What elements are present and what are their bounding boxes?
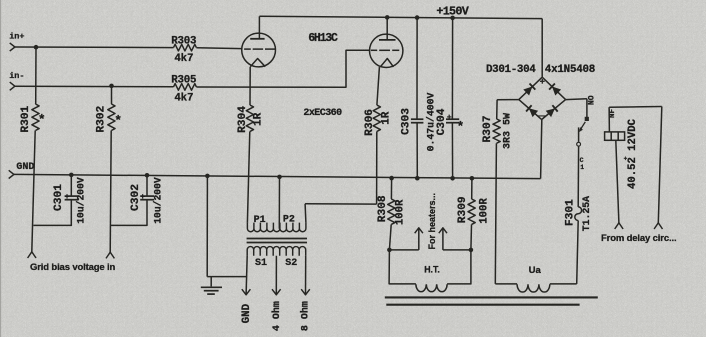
- svg-text:10u/200V: 10u/200V: [76, 177, 87, 224]
- label R302: [96, 105, 108, 132]
- tube V1 envelope: [242, 33, 276, 67]
- transformer mains core: [385, 297, 598, 304]
- svg-text:T1.25A: T1.25A: [581, 196, 592, 231]
- svg-text:R308: R308: [377, 195, 389, 222]
- label C303: [401, 108, 413, 135]
- svg-text:GND: GND: [16, 162, 34, 173]
- bridge edge R-T: [542, 77, 565, 99]
- wire rail to chassis ground: [206, 176, 208, 277]
- wire relay top link: [609, 106, 662, 109]
- wire C304 top: [451, 18, 453, 119]
- wire C301 top: [70, 175, 72, 196]
- junction rail/C303: [415, 15, 420, 20]
- svg-text:+: +: [65, 193, 70, 202]
- junction HT left corner: [387, 248, 392, 253]
- label R303 value 4k7: [174, 53, 193, 65]
- label R301: [20, 105, 32, 132]
- label C304: [436, 108, 448, 135]
- label C1: [580, 157, 585, 171]
- diode D304: [546, 105, 558, 117]
- junction rail/R308: [389, 176, 394, 181]
- resistor R309: [468, 199, 475, 224]
- junction rail/R309: [470, 176, 475, 181]
- label R302 value *: [114, 114, 122, 129]
- svg-text:P2: P2: [283, 214, 295, 225]
- label from delay note: [601, 233, 676, 244]
- svg-text:R307: R307: [482, 116, 494, 143]
- svg-text:C303: C303: [401, 108, 413, 135]
- wire in+ to R303: [15, 46, 174, 49]
- label NF: [609, 109, 617, 119]
- junction rail/primary center tap: [277, 175, 282, 180]
- capacitor C303: [411, 119, 424, 123]
- tube V2 grid: [371, 49, 400, 51]
- svg-text:Ua: Ua: [529, 265, 542, 276]
- svg-text:Grid bias voltage in: Grid bias voltage in: [30, 262, 116, 273]
- wire R308 top: [390, 178, 392, 199]
- resistor R301: [32, 104, 39, 131]
- label R301 value *: [38, 113, 46, 128]
- label S2: [285, 258, 297, 269]
- wire heater tap 1: [418, 228, 420, 250]
- wire R308 to HT left: [389, 224, 391, 250]
- scan edge artifact: [0, 0, 2, 337]
- svg-text:C301: C301: [53, 184, 65, 211]
- wire bridge right vertex to relay contact: [566, 98, 587, 101]
- wire S2 right tap: [305, 256, 307, 295]
- fuse F301: [575, 207, 582, 221]
- label 6H13C: [308, 32, 338, 45]
- tube V2 cathode: [380, 59, 393, 67]
- wire C303 top: [416, 18, 418, 119]
- svg-text:*: *: [114, 114, 122, 129]
- wire S1/S2 tap: [275, 256, 277, 295]
- wire relay link to delay: [658, 107, 662, 223]
- resistor R308: [388, 199, 395, 224]
- wire S1 left to GND tap: [246, 256, 247, 295]
- junction in+/R301: [34, 45, 39, 50]
- label C302: [130, 184, 142, 211]
- wire relay contact feed: [586, 99, 588, 117]
- wire V2 cathode to R306: [377, 67, 380, 105]
- tube V2 envelope: [370, 34, 403, 67]
- label C304 value *: [456, 120, 464, 135]
- wire C304 bottom: [451, 123, 453, 179]
- wire C302 top: [146, 175, 148, 196]
- svg-text:4k7: 4k7: [174, 53, 193, 65]
- wire ground link to S1: [207, 276, 246, 278]
- capacitor C304: [446, 119, 459, 123]
- wire P2 jog horizontal: [305, 203, 377, 205]
- wire R302 to bias arrow: [110, 131, 111, 253]
- resistor R304: [246, 105, 253, 132]
- capacitor C302: [140, 196, 154, 200]
- label C301 value: [76, 177, 87, 224]
- junction rail/C303 bottom: [415, 176, 420, 181]
- resistor R303: [174, 44, 197, 51]
- wire Ua right link: [550, 283, 577, 285]
- transformer OT core: [247, 239, 307, 243]
- svg-text:R301: R301: [20, 105, 32, 132]
- relay contact blade: [579, 122, 585, 132]
- arrow speaker 8 Ohm: [301, 289, 310, 295]
- tube V1 grid: [244, 48, 275, 50]
- wire rail to bridge plus: [541, 19, 543, 78]
- label 2xEC360: [303, 108, 342, 119]
- label R307: [482, 116, 494, 143]
- label C303 value: [425, 92, 436, 151]
- wire bridge left vertex to R307: [497, 99, 519, 101]
- svg-text:in+: in+: [9, 32, 24, 42]
- label S1: [255, 258, 267, 269]
- label R306 value 1R: [380, 111, 392, 125]
- arrow grid bias 2: [106, 252, 114, 258]
- tube V1 anode: [250, 38, 264, 40]
- wire R301 to bias arrow: [32, 131, 35, 252]
- svg-text:R302: R302: [96, 105, 108, 132]
- label C301: [53, 184, 65, 211]
- wire in- to R305: [15, 85, 174, 88]
- resistor R305: [174, 84, 197, 91]
- label R303: [171, 35, 196, 47]
- wire V1 anode to +150V rail: [258, 16, 260, 39]
- label 8 Ohm: [300, 301, 312, 331]
- node in- label: [9, 71, 24, 81]
- svg-text:4 Ohm: 4 Ohm: [271, 301, 283, 331]
- wire R307 to Ua winding: [495, 143, 496, 284]
- svg-text:3R3 5W: 3R3 5W: [503, 113, 514, 149]
- wire rail to bridge minus: [541, 120, 542, 179]
- wire R305 to V2 grid: [196, 50, 369, 87]
- bridge edge L-T: [519, 77, 542, 99]
- wire R309 to HT right: [470, 224, 473, 250]
- connector GND: [9, 170, 14, 178]
- arrow grid bias 1: [28, 252, 36, 258]
- node GND label: [16, 162, 34, 173]
- svg-text:4k7: 4k7: [174, 92, 193, 104]
- junction rail/C302: [145, 173, 150, 178]
- wire R304 to P1: [247, 132, 249, 223]
- connector in+: [10, 43, 15, 51]
- svg-text:For heaters...: For heaters...: [427, 193, 437, 250]
- label R306: [364, 109, 376, 136]
- svg-text:2xEC360: 2xEC360: [303, 108, 342, 119]
- wire P2 end vertical: [304, 204, 307, 223]
- bridge plus mark: [540, 79, 545, 84]
- ground symbol: [201, 287, 222, 294]
- label for heaters note: [427, 193, 437, 250]
- svg-text:0.47u/400V: 0.47u/400V: [425, 92, 436, 151]
- diode D302: [549, 84, 561, 96]
- label speaker GND: [241, 303, 253, 323]
- svg-text:1R: 1R: [380, 111, 392, 125]
- label 40.52 12VDC: [627, 118, 639, 189]
- wire relay coil top: [608, 107, 610, 132]
- junction rail/C304 bottom: [450, 176, 455, 181]
- label F301 value T1.25A: [581, 196, 592, 231]
- label R304: [237, 106, 249, 133]
- resistor R306: [373, 105, 380, 132]
- capacitor C301: [65, 196, 79, 200]
- arrow coil terminal: [615, 223, 623, 229]
- svg-text:1: 1: [580, 164, 584, 171]
- label C302 value: [152, 177, 163, 224]
- arrow speaker GND: [242, 289, 251, 295]
- svg-text:S2: S2: [285, 258, 297, 269]
- wire primary center tap: [278, 177, 280, 229]
- junction rail/C304: [450, 16, 455, 21]
- label P1: [254, 215, 266, 226]
- label 4 Ohm: [271, 301, 283, 331]
- resistor R307: [493, 119, 500, 143]
- tube V2 anode: [379, 39, 396, 41]
- svg-text:From delay circ...: From delay circ...: [601, 233, 676, 244]
- svg-text:NF: NF: [609, 109, 617, 119]
- arrow heater 2: [439, 228, 447, 233]
- svg-text:1R: 1R: [253, 112, 265, 126]
- wire common to fuse: [577, 146, 579, 207]
- svg-text:100R: 100R: [479, 198, 491, 224]
- ground symbol stem: [210, 277, 212, 287]
- svg-text:R304: R304: [237, 106, 249, 133]
- resistor R302: [108, 104, 115, 131]
- wire HT left side: [389, 250, 416, 284]
- wire HT right side: [447, 250, 471, 284]
- wire C303 bottom: [416, 123, 418, 179]
- svg-text:4x1N5408: 4x1N5408: [545, 64, 595, 76]
- wire relay coil to delay: [616, 140, 619, 223]
- diode D303: [526, 105, 538, 117]
- wire R307 top: [496, 100, 498, 119]
- transformer Ua winding: [517, 284, 550, 292]
- transformer HT winding: [416, 284, 447, 291]
- svg-text:10u/200V: 10u/200V: [152, 177, 163, 224]
- wire R301 top: [35, 47, 37, 104]
- label F301: [564, 199, 576, 226]
- junction rail/ground branch: [205, 174, 210, 179]
- bridge edge B-R: [542, 100, 566, 120]
- label R305 value 4k7: [174, 92, 193, 104]
- wire fuse to Ua winding: [577, 221, 579, 284]
- label C301 polarity +: [65, 193, 70, 202]
- junction rail/C301: [69, 173, 74, 178]
- label C302 polarity +: [140, 193, 145, 202]
- wire Ua left link: [495, 283, 517, 285]
- net +150V label: [436, 4, 469, 18]
- label NO: [587, 95, 596, 105]
- label D301-304: [486, 64, 536, 76]
- junction HT right corner: [469, 248, 474, 253]
- diode D301: [523, 84, 535, 96]
- svg-text:F301: F301: [564, 199, 576, 226]
- relay contact common stub: [578, 127, 580, 141]
- junction rail/V2 anode: [385, 15, 390, 20]
- label R307 value 3R3 5W: [503, 113, 514, 149]
- svg-text:+: +: [140, 193, 145, 202]
- relay contact NO pad: [585, 117, 589, 121]
- relay contact common circle: [577, 142, 581, 146]
- wire R306 to P2 jog: [376, 132, 378, 205]
- wire V1 cathode to R304: [249, 67, 251, 105]
- wire V2 anode to rail: [386, 17, 388, 40]
- svg-text:*: *: [38, 113, 46, 128]
- label R305: [171, 75, 196, 87]
- svg-text:P1: P1: [254, 215, 266, 226]
- wire HT top left: [389, 249, 418, 251]
- label R309 value 100R: [479, 198, 491, 224]
- svg-text:R306: R306: [364, 109, 376, 136]
- wire GND rail: [14, 174, 541, 178]
- label P2: [283, 214, 295, 225]
- label R309: [457, 196, 469, 223]
- label Ua: [529, 265, 542, 276]
- svg-text:NO: NO: [587, 95, 596, 105]
- svg-text:*: *: [456, 120, 464, 135]
- label R308 value 100R: [395, 199, 407, 225]
- label 4x1N5408: [545, 64, 595, 76]
- svg-text:GND: GND: [241, 303, 253, 323]
- svg-text:100R: 100R: [395, 199, 407, 225]
- label R308: [377, 195, 389, 222]
- wire HT top right: [443, 249, 471, 251]
- svg-text:+: +: [447, 114, 452, 123]
- bridge bottom notch: [538, 116, 546, 119]
- svg-text:8 Ohm: 8 Ohm: [300, 301, 312, 331]
- label coil polarity: [624, 156, 628, 163]
- connector in-: [10, 82, 15, 90]
- tube V1 cathode: [250, 59, 265, 67]
- svg-text:6H13C: 6H13C: [308, 32, 338, 45]
- svg-text:H.T.: H.T.: [424, 264, 440, 274]
- arrow heater 1: [415, 228, 423, 233]
- label grid bias note: [30, 262, 116, 273]
- wire R303 to V1 grid: [196, 47, 242, 50]
- svg-text:D301-304: D301-304: [486, 64, 536, 76]
- arrow speaker 4 Ohm: [272, 289, 281, 295]
- wire R309 top: [471, 178, 473, 199]
- transformer secondary S1 S2: [247, 247, 306, 256]
- svg-text:S1: S1: [255, 258, 267, 269]
- svg-text:in-: in-: [9, 71, 24, 81]
- bridge edge B-L: [519, 100, 542, 120]
- node in+ label: [9, 32, 24, 42]
- label R304 value 1R: [253, 112, 265, 126]
- wire C302 bottom: [111, 200, 147, 226]
- wire R302 top: [111, 86, 113, 104]
- transformer primary P1 P2: [247, 223, 306, 232]
- wire +150V rail: [259, 16, 542, 18]
- svg-text:R309: R309: [457, 196, 469, 223]
- label C304 polarity +: [447, 114, 452, 123]
- wire C301 bottom: [33, 200, 71, 226]
- wire heater tap 2: [442, 228, 444, 250]
- junction in-/R302: [109, 84, 114, 89]
- svg-text:40.52 12VDC: 40.52 12VDC: [627, 118, 639, 189]
- label H.T.: [424, 264, 440, 274]
- arrow relay terminal: [654, 223, 662, 229]
- relay coil: [605, 132, 625, 140]
